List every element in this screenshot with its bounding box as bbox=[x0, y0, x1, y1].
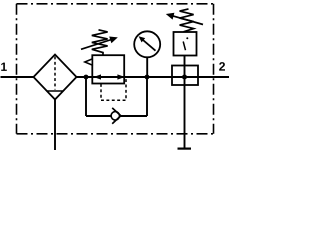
distribution block B bbox=[172, 66, 198, 86]
check valve V: seat chevron bbox=[112, 108, 121, 124]
port 2 label bbox=[219, 62, 225, 71]
regulator R: flow arrow right bbox=[117, 74, 125, 79]
regulator R: relief vent triangle bbox=[85, 59, 93, 65]
pressure switch S: body box bbox=[174, 32, 197, 56]
node: block center junction bbox=[182, 75, 187, 80]
pressure switch S: contact lever bbox=[183, 37, 188, 50]
regulator R: body square bbox=[92, 55, 124, 83]
wire: bottom port end bar bbox=[178, 148, 192, 150]
filter F: water separator triangle bbox=[47, 91, 63, 99]
filter F: diamond body bbox=[34, 55, 77, 100]
wire: main flow line from filter outlet to port 2 bbox=[77, 76, 230, 78]
check valve V: poppet circle bbox=[111, 112, 119, 120]
regulator R: pilot line (dashed) bbox=[101, 79, 126, 101]
pressure switch S: setting spring bbox=[180, 9, 194, 32]
pressure switch S: spring adjustment arrow bbox=[166, 13, 203, 25]
node: gauge stem junction bbox=[145, 75, 150, 80]
wire: bypass up-leg / gauge branch riser bbox=[146, 77, 148, 116]
port 1 label bbox=[1, 63, 7, 71]
node: regulator inlet junction bbox=[84, 75, 89, 80]
wire: bypass down-leg at regulator inlet bbox=[85, 77, 87, 116]
wire: pressure gauge stem bbox=[146, 57, 148, 77]
wire: bypass bottom run bbox=[86, 115, 147, 117]
regulator R: adjustment spring bbox=[92, 30, 108, 55]
wire: switch sensing stem / block branch vertical bbox=[184, 56, 186, 149]
filter F: dashed element centerline bbox=[54, 57, 56, 90]
enclosure: dash-dot assembly boundary bbox=[17, 4, 214, 134]
regulator R: spring adjustment arrow bbox=[81, 37, 118, 50]
regulator R: flow arrow left bbox=[94, 74, 102, 79]
wire: filter condensate drain line bbox=[54, 100, 56, 151]
wire: port 1 inlet line bbox=[1, 76, 34, 78]
pressure gauge G bbox=[134, 31, 160, 57]
